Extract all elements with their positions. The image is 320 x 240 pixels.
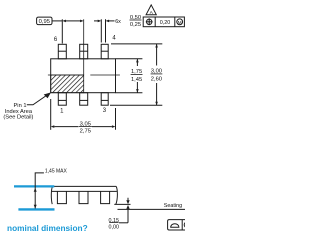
package body (top view) <box>51 59 116 93</box>
svg-text:1,75: 1,75 <box>131 69 142 75</box>
lead standoff reference line <box>114 203 130 205</box>
svg-text:(See Detail): (See Detail) <box>3 115 33 121</box>
side view lead 2 <box>79 191 88 203</box>
dimension 6x 0,50/0,25 extension lines and arrows <box>94 19 115 42</box>
dimension 1,75/1,45 <box>131 59 143 93</box>
pin 1 leader and arrow <box>27 92 51 104</box>
lead 1 <box>58 93 66 106</box>
dimension 1,45 MAX <box>34 168 68 208</box>
side view lead 3 <box>101 191 110 203</box>
lead 2 <box>80 93 88 106</box>
dimension 3,00/2,60 extension lines <box>111 43 162 45</box>
dimension 0,15/0,00 text <box>109 218 120 231</box>
feature control frame (position 0,20 M) <box>143 17 184 27</box>
svg-text:Seating: Seating <box>164 203 182 209</box>
seating plane line <box>118 208 186 210</box>
blue markup line 2 <box>18 208 54 210</box>
svg-text:1,45 MAX: 1,45 MAX <box>45 168 68 174</box>
dimension 3,05/2,75 <box>51 121 116 134</box>
svg-text:3: 3 <box>103 108 107 114</box>
svg-text:6: 6 <box>54 37 58 43</box>
dimension 0,15/0,00 arrows <box>119 198 130 223</box>
svg-text:3,00: 3,00 <box>151 68 162 74</box>
svg-text:0,20: 0,20 <box>160 20 171 26</box>
svg-text:0,25: 0,25 <box>130 22 141 28</box>
svg-text:2,60: 2,60 <box>151 76 162 82</box>
datum A flag <box>146 5 156 16</box>
svg-text:1,45: 1,45 <box>131 77 142 83</box>
horizontal centerline <box>48 74 120 76</box>
lead 6 <box>58 44 66 59</box>
pin 1 index area hatch <box>51 75 84 93</box>
seating plane symbol frame (cut off at right edge) <box>168 220 190 230</box>
dimension 1,75/1,45 extension lines <box>116 58 143 60</box>
svg-text:nominal dimension?: nominal dimension? <box>7 223 88 233</box>
lead 4 <box>101 44 108 59</box>
lead 5 <box>80 44 88 59</box>
lead 3 <box>101 93 108 106</box>
vertical centerline / pin5 extension <box>83 19 85 75</box>
svg-text:6x: 6x <box>115 19 121 25</box>
svg-text:2,75: 2,75 <box>80 128 91 134</box>
side view body <box>51 186 117 204</box>
dimension 3,00/2,60 <box>151 44 163 105</box>
svg-text:0,00: 0,00 <box>109 225 120 231</box>
dimension 3,05/2,75 extension lines <box>50 99 52 130</box>
svg-text:M: M <box>178 20 182 25</box>
blue markup line 1 <box>14 185 54 187</box>
svg-text:1: 1 <box>60 109 64 115</box>
fraction 0,50 / 0,25 <box>130 15 142 28</box>
svg-text:4: 4 <box>112 35 116 41</box>
dimension 0,95 leader and arrows <box>52 19 84 43</box>
pin 1 note text <box>3 103 33 121</box>
side view lead 1 <box>57 191 66 203</box>
svg-text:0,95: 0,95 <box>39 19 50 25</box>
dimension 0,95 boxed label <box>37 17 52 25</box>
